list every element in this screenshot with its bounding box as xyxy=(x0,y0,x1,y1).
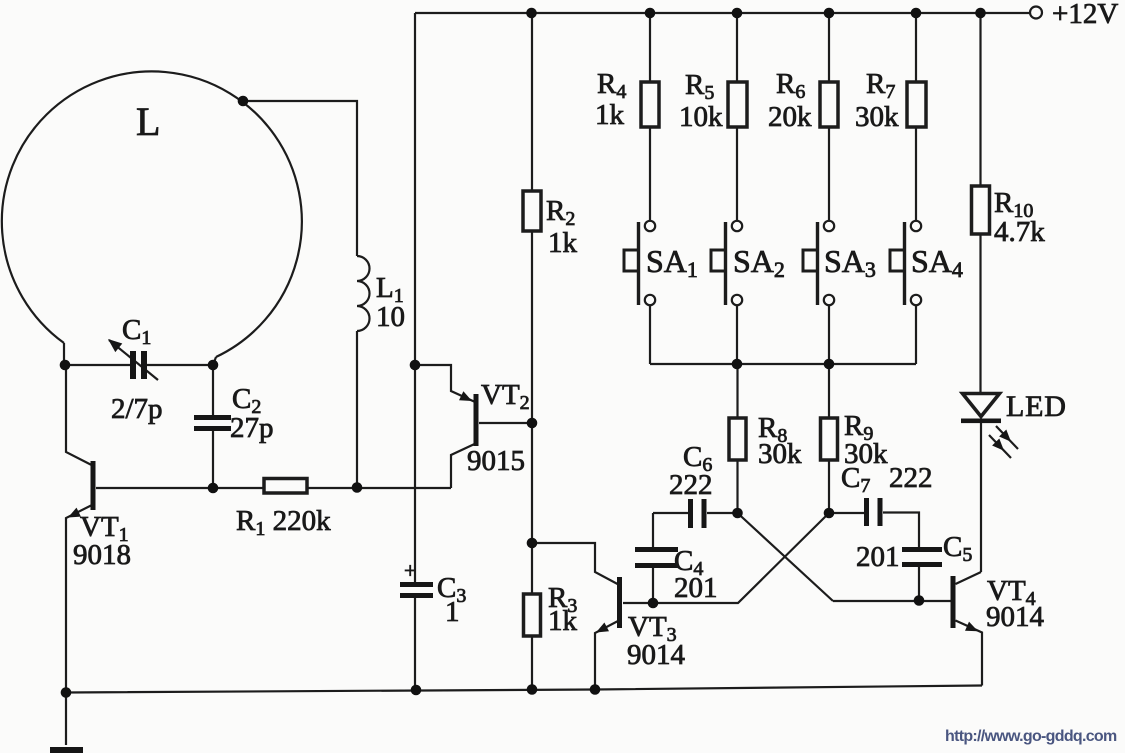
svg-text:27p: 27p xyxy=(230,412,274,444)
svg-text:30k: 30k xyxy=(758,438,802,470)
svg-text:1k: 1k xyxy=(548,227,578,259)
svg-text:222: 222 xyxy=(889,462,933,494)
svg-text:201: 201 xyxy=(674,572,718,604)
svg-text:10k: 10k xyxy=(679,101,723,133)
svg-text:1k: 1k xyxy=(548,605,578,637)
svg-text:1k: 1k xyxy=(595,99,625,131)
svg-text:201: 201 xyxy=(856,541,900,573)
svg-text:+12V: +12V xyxy=(1052,0,1118,30)
svg-text:20k: 20k xyxy=(768,101,812,133)
svg-text:1: 1 xyxy=(445,596,460,628)
svg-text:10: 10 xyxy=(376,301,405,333)
svg-text:+: + xyxy=(404,558,416,583)
svg-text:9014: 9014 xyxy=(627,639,686,671)
svg-text:2/7p: 2/7p xyxy=(111,393,163,425)
svg-text:30k: 30k xyxy=(855,101,899,133)
svg-text:R1 220k: R1 220k xyxy=(236,505,331,540)
svg-text:LED: LED xyxy=(1006,390,1067,423)
svg-text:9015: 9015 xyxy=(467,445,525,477)
svg-text:9018: 9018 xyxy=(73,539,131,571)
svg-text:9014: 9014 xyxy=(986,601,1045,633)
svg-text:http://www.go-gddq.com: http://www.go-gddq.com xyxy=(945,728,1117,745)
svg-text:222: 222 xyxy=(669,469,713,501)
svg-text:L: L xyxy=(136,99,160,144)
svg-text:4.7k: 4.7k xyxy=(994,216,1045,248)
